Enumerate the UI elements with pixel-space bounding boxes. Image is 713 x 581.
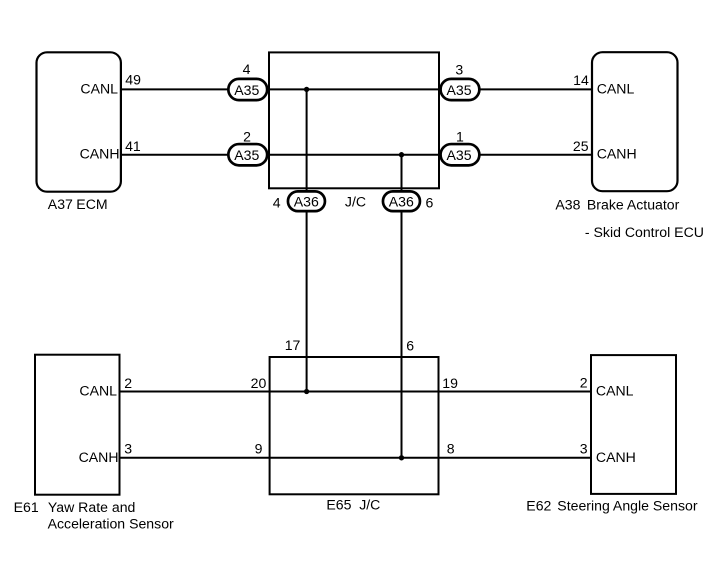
svg-text:Acceleration Sensor: Acceleration Sensor [48,515,174,531]
wire CANL bottom (E61 pin 2 to E62 pin 2) [120,391,592,393]
wire CANH bottom (E61 pin 3 to E62 pin 3) [120,457,592,459]
wire vertical CANH branch (J/C A36 pin 6 to E65 pin 6) [401,155,403,458]
node junction dot E65 CANL [304,389,309,394]
svg-text:2: 2 [580,375,588,391]
svg-text:A35: A35 [234,147,259,163]
svg-text:3: 3 [124,440,132,456]
connector A35 pin 2 oval [228,144,267,165]
svg-text:CANL: CANL [79,383,117,399]
svg-text:ECM: ECM [76,196,107,212]
junction connector E65 box [270,357,439,494]
svg-text:2: 2 [243,129,251,145]
node junction dot E65 CANH [399,455,404,460]
wire vertical CANL branch (J/C A36 pin 4 to E65 pin 17) [306,89,308,391]
svg-text:4: 4 [273,195,281,211]
svg-text:3: 3 [455,62,463,78]
svg-text:CANL: CANL [596,383,634,399]
svg-text:CANL: CANL [80,81,118,97]
connector A35 pin 1 oval [441,144,480,165]
svg-text:25: 25 [573,138,589,154]
svg-text:Yaw Rate and: Yaw Rate and [48,499,135,515]
svg-text:J/C: J/C [359,497,380,513]
svg-text:J/C: J/C [345,193,366,209]
svg-text:3: 3 [580,440,588,456]
node junction dot CANH/A36-6 [399,152,404,157]
svg-text:CANH: CANH [79,449,119,465]
svg-text:CANH: CANH [80,146,120,162]
connector A35 pin 3 oval [441,79,480,100]
svg-text:4: 4 [243,61,251,77]
svg-text:A37: A37 [48,196,73,212]
svg-text:A35: A35 [234,82,259,98]
yaw rate sensor E61 box [35,355,120,495]
svg-text:6: 6 [426,195,434,211]
svg-text:CANH: CANH [596,449,636,465]
wire CANL top (A37 pin 49 to A38 pin 14) [120,88,592,90]
svg-text:A35: A35 [446,82,471,98]
node junction dot CANL/A36-4 [304,87,309,92]
wire CANH top (A37 pin 41 to A38 pin 25) [120,154,592,156]
brake actuator A38 box [592,52,678,191]
junction connector J/C box (top) [269,52,439,188]
svg-text:2: 2 [124,375,132,391]
svg-text:- Skid Control ECU: - Skid Control ECU [585,224,704,240]
svg-text:E62: E62 [526,497,551,513]
svg-text:9: 9 [255,440,263,456]
ECM A37 box [37,52,121,191]
svg-text:14: 14 [573,72,589,88]
svg-text:41: 41 [125,138,141,154]
svg-text:19: 19 [442,375,458,391]
svg-text:E61: E61 [14,499,39,515]
svg-text:1: 1 [456,129,464,145]
connector A36 pin 6 oval [383,191,420,211]
svg-text:A36: A36 [294,194,319,210]
svg-text:Brake Actuator: Brake Actuator [587,196,680,212]
svg-text:A36: A36 [389,194,414,210]
svg-text:CANL: CANL [597,81,635,97]
steering angle sensor E62 box [591,355,676,494]
svg-text:A38: A38 [555,196,580,212]
svg-text:8: 8 [447,440,455,456]
svg-text:49: 49 [125,71,141,87]
svg-text:E65: E65 [326,497,351,513]
svg-text:CANH: CANH [597,146,637,162]
connector A35 pin 4 oval [228,79,267,100]
svg-text:20: 20 [251,375,267,391]
connector A36 pin 4 oval [288,191,325,211]
svg-text:Steering Angle Sensor: Steering Angle Sensor [557,497,698,513]
svg-text:A35: A35 [446,147,471,163]
svg-text:17: 17 [285,337,301,353]
svg-text:6: 6 [406,337,414,353]
